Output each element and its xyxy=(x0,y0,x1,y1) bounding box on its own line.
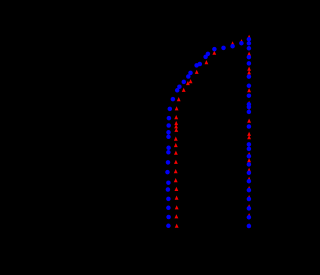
blue circle arc (dataset 1 saturation branch) xyxy=(171,41,244,101)
right column blue circles (higher transition) xyxy=(247,37,252,228)
right column red triangles (higher transition) xyxy=(247,35,251,228)
left blue circle column (dataset 1, lower transition) xyxy=(165,107,172,228)
red triangle arc (dataset 2 saturation branch) xyxy=(177,39,244,101)
left red triangle column (dataset 2, lower transition) xyxy=(174,106,179,228)
